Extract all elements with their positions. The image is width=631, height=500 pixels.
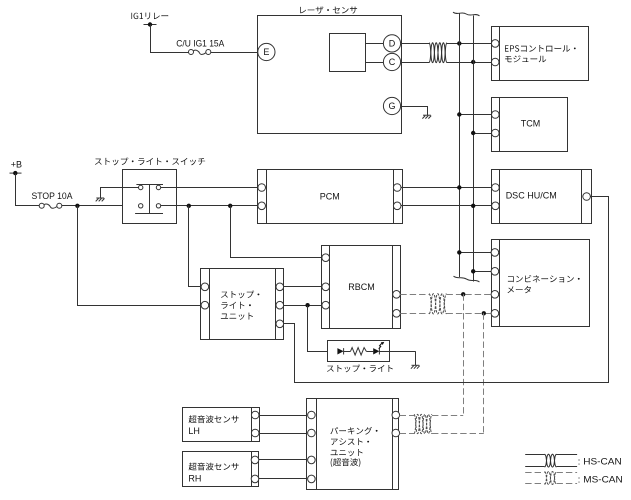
wire MS-CAN parking braid L	[432, 433, 484, 435]
node HS-CAN L at EPS	[471, 60, 475, 64]
legend HS-CAN line H left	[525, 454, 544, 456]
wire HS-CAN bus line L (vertical)	[473, 16, 475, 282]
wire bus L to TCM	[473, 133, 491, 135]
svg-text:RBCM: RBCM	[348, 282, 375, 292]
svg-text:TCM: TCM	[521, 118, 541, 128]
wire fuse STOP to switch	[62, 205, 139, 207]
twisted pair MS-CAN parking assist	[414, 414, 432, 433]
switch contact top-left	[139, 185, 143, 189]
switch box: stop light switch	[123, 170, 177, 224]
ECU box: parking assist unit	[307, 399, 400, 490]
wire PCM to DSC (L)	[401, 205, 492, 207]
wire node stop-fuse to stop light unit	[78, 206, 202, 306]
internal CAN driver block of laser sensor	[330, 34, 366, 72]
wire D1 to R1	[344, 351, 351, 353]
wire MS-CAN parking to braid (H)	[400, 415, 414, 417]
wire switch to PCM (top row)	[161, 187, 258, 189]
wire fuse to laser sensor pin E	[211, 52, 258, 54]
node bus L at meter	[471, 269, 475, 273]
ground: stop light	[411, 365, 420, 368]
ECU box: laser sensor	[258, 16, 402, 134]
label stop light unit line1	[221, 291, 259, 299]
switch contact bottom-left	[139, 204, 143, 208]
svg-text:C: C	[389, 57, 396, 67]
ECU box: combination meter	[491, 240, 589, 327]
wire stop light unit to RBCM row1	[284, 286, 322, 288]
wire +B to fuse STOP	[16, 174, 40, 206]
node bus L at PCM/DSC	[471, 204, 475, 208]
ECU box: PCM	[258, 170, 403, 224]
wire bus L to combination meter	[473, 271, 491, 273]
ECU box: RBCM	[322, 246, 401, 329]
wire stop light to ground	[379, 351, 415, 353]
svg-text:G: G	[388, 101, 395, 111]
switch actuator link	[149, 184, 151, 214]
legend MS-CAN line L right	[557, 483, 578, 485]
wire RH to parking assist 1	[259, 459, 308, 461]
label parking assist line1	[330, 427, 377, 435]
LED D1 of stop light	[337, 348, 343, 354]
pin C of laser sensor	[383, 53, 400, 70]
node bus L at TCM	[471, 131, 475, 135]
ground: stop light switch	[96, 198, 105, 201]
node A stop lamp feed 1	[187, 204, 191, 208]
ECU box: stop light unit	[201, 269, 284, 340]
label parking assist line4	[331, 458, 361, 467]
label ultrasonic LH line1	[189, 415, 239, 423]
wire RH to parking assist 2	[259, 478, 308, 480]
twisted pair HS-CAN laser sensor	[429, 43, 447, 63]
svg-text:DSC HU/CM: DSC HU/CM	[506, 191, 557, 201]
node stop fuse junction	[75, 204, 79, 208]
legend HS-CAN line L left	[525, 466, 544, 468]
wire: +B feed tick	[10, 172, 22, 174]
label parking assist line2	[331, 438, 369, 445]
label laser sensor (レーザ・センサ)	[300, 7, 357, 14]
LED D2 of stop light (with flash arrow)	[373, 342, 384, 355]
legend twisted pair MS-CAN	[545, 472, 557, 485]
wire MS-CAN RBCM to braid (H)	[400, 294, 429, 296]
wire stop light ground drop	[415, 351, 417, 365]
wire: IG1 relay feed tick	[144, 24, 157, 26]
sensor box: ultrasonic sensor LH	[183, 408, 260, 442]
wire CAN-L laser to braid	[401, 62, 429, 64]
wire MS-CAN parking braid H	[432, 415, 463, 417]
wire node B to RBCM	[231, 206, 323, 258]
svg-text:D: D	[389, 39, 396, 49]
sensor box: ultrasonic sensor RH	[183, 452, 259, 487]
wire MS-CAN L drop to parking assist	[483, 313, 485, 433]
node B stop lamp feed 2	[228, 204, 232, 208]
fuse C/U IG1 15A	[189, 50, 211, 55]
twisted pair MS-CAN RBCM	[429, 294, 447, 314]
label ultrasonic RH line1	[189, 463, 239, 471]
node MS-CAN H branch	[461, 292, 465, 296]
legend HS-CAN line H right	[557, 454, 578, 456]
node bus H at PCM/DSC	[457, 185, 461, 189]
fuse STOP 10A	[39, 203, 62, 208]
bus break (top)	[453, 12, 480, 16]
switch contact top-right	[156, 185, 160, 189]
svg-text:: HS-CAN: : HS-CAN	[578, 456, 622, 467]
node IG1 relay tap	[148, 22, 152, 26]
resistor R1 of stop light	[351, 348, 367, 355]
legend MS-CAN line H left	[525, 472, 544, 474]
pin E of laser sensor	[258, 43, 275, 60]
label parking assist line3	[331, 449, 363, 456]
wire HS-CAN bus line H (vertical)	[459, 13, 461, 277]
svg-text:: MS-CAN: : MS-CAN	[578, 475, 623, 486]
ECU box: EPS control module	[491, 27, 588, 81]
ground: laser sensor	[422, 115, 431, 118]
legend twisted pair HS-CAN	[545, 454, 557, 467]
svg-text:+B: +B	[11, 159, 22, 169]
wire switch to PCM (bottom row)	[161, 205, 258, 207]
wire branch to stop light	[308, 306, 338, 352]
label stop light switch (ストップ・ライト・スイッチ)	[95, 158, 205, 166]
node bus H at meter	[457, 250, 461, 254]
label combination meter line2	[508, 286, 531, 293]
switch actuator bar bottom	[135, 213, 163, 215]
label EPS line2	[505, 55, 546, 62]
svg-text:PCM: PCM	[320, 192, 340, 202]
wire MS-CAN braid to meter (H)	[447, 294, 492, 296]
wire bus H to combination meter	[459, 252, 491, 254]
svg-text:RH: RH	[188, 473, 201, 483]
ECU box: TCM	[492, 98, 568, 152]
wire driver to pin C	[366, 62, 384, 64]
label IG1 relay (IG1リレー)	[131, 13, 168, 20]
lamp box: stop light	[328, 341, 390, 362]
wire bus H to TCM	[459, 114, 491, 116]
wire MS-CAN H drop to parking assist	[463, 294, 465, 415]
legend HS-CAN line L right	[557, 466, 578, 468]
switch contact bottom-right	[156, 204, 160, 208]
svg-text:LH: LH	[188, 426, 200, 436]
node bus H at TCM	[457, 112, 461, 116]
legend MS-CAN line L left	[525, 483, 544, 485]
label stop light unit line2	[221, 302, 251, 309]
node stop lamp branch	[305, 303, 309, 307]
wire MS-CAN RBCM to braid (L)	[400, 313, 429, 315]
label EPS line1	[505, 45, 576, 52]
bus break (bottom)	[454, 276, 480, 282]
wire IG1 relay to fuse C/U IG1	[151, 25, 189, 53]
svg-text:STOP 10A: STOP 10A	[32, 191, 73, 201]
legend MS-CAN line H right	[557, 472, 578, 474]
wire CAN-H braid to EPS	[447, 43, 492, 45]
svg-text:E: E	[263, 47, 269, 57]
wire R1 to D2	[366, 351, 373, 353]
switch actuator bar top	[136, 184, 163, 186]
node HS-CAN H at EPS	[457, 41, 461, 45]
wire pin G to ground	[401, 107, 428, 116]
wire PCM to DSC (H)	[401, 187, 492, 189]
wire node A to stop light unit	[189, 206, 202, 287]
wire stop light unit to RBCM row2	[284, 305, 322, 307]
wire MS-CAN braid to meter (L)	[447, 313, 492, 315]
node MS-CAN L branch	[482, 311, 486, 315]
wire switch to ground	[101, 188, 139, 199]
wire DSC HU/CM to stop light unit (brake signal)	[284, 197, 609, 383]
wire LH to parking assist 1	[259, 415, 308, 417]
label stop light (ストップ・ライト)	[327, 365, 393, 373]
pin G of laser sensor	[383, 97, 400, 114]
svg-text:C/U IG1 15A: C/U IG1 15A	[176, 38, 224, 48]
wire LH to parking assist 2	[259, 433, 308, 435]
pin D of laser sensor	[383, 35, 400, 52]
wire CAN-H laser to braid	[401, 43, 429, 45]
wire MS-CAN parking to braid (L)	[400, 433, 414, 435]
wire driver to pin D	[366, 43, 384, 45]
label stop light unit line3	[221, 313, 253, 320]
label combination meter line1	[508, 275, 580, 283]
node +B tap	[13, 171, 17, 175]
ECU box: DSC HU/CM	[492, 170, 592, 224]
wire CAN-L braid to EPS	[447, 62, 492, 64]
